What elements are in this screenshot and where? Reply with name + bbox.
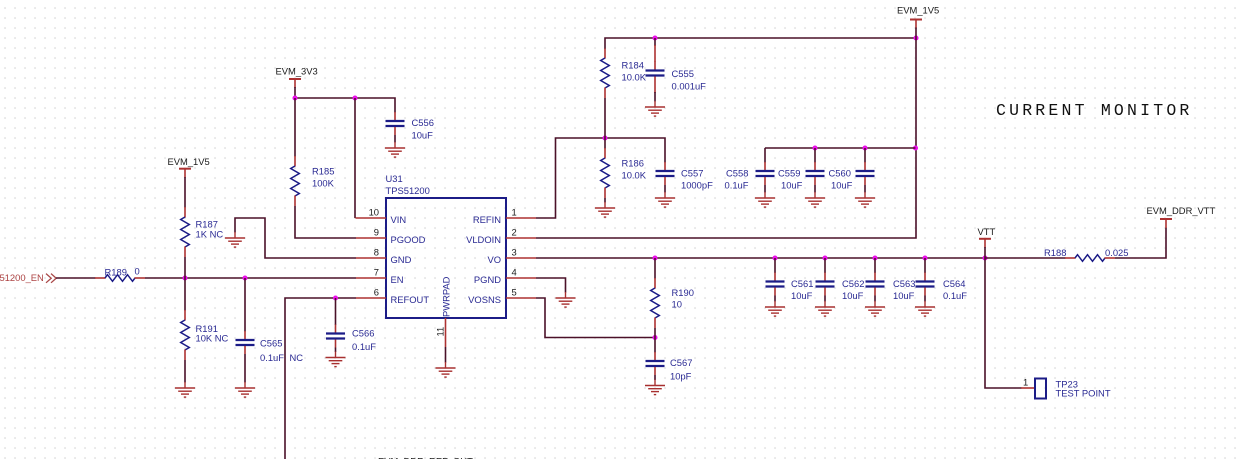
svg-text:C565: C565 — [260, 338, 282, 349]
svg-text:PGND: PGND — [474, 274, 501, 285]
wire pin 11 to ground — [445, 347, 447, 363]
wire PGND pin 4 — [536, 278, 566, 293]
resistor R185 — [291, 156, 335, 206]
svg-text:EVM_DDR_REF_OUT: EVM_DDR_REF_OUT — [378, 455, 473, 459]
svg-text:EVM_DDR_VTT: EVM_DDR_VTT — [1147, 205, 1216, 216]
svg-text:C560: C560 — [829, 167, 851, 178]
ground (R191) — [175, 382, 195, 397]
wire EVM_3V3 node to C556 — [295, 87, 395, 113]
test point TP23 — [1021, 376, 1111, 398]
ground (C567) — [645, 380, 665, 395]
capacitor C564 — [916, 273, 968, 301]
junction C559 row — [812, 145, 817, 150]
pin 10 stub — [356, 217, 387, 219]
wire VTT to TP23 — [985, 258, 1022, 388]
svg-text:10uF: 10uF — [842, 290, 864, 301]
svg-text:C563: C563 — [893, 278, 915, 289]
wire C561 drop — [774, 258, 776, 273]
svg-text:10pF: 10pF — [670, 370, 692, 381]
power EVM_3V3 — [276, 66, 318, 89]
svg-text:4: 4 — [512, 267, 517, 278]
svg-text:C567: C567 — [670, 357, 692, 368]
svg-text:11: 11 — [435, 327, 446, 337]
svg-text:C555: C555 — [672, 68, 694, 79]
pin 7 stub — [356, 277, 386, 279]
capacitor C560 — [829, 162, 875, 190]
wire C559 drop — [814, 148, 816, 163]
resistor R184 — [601, 48, 647, 98]
pin 2 stub — [506, 237, 536, 239]
svg-text:NC: NC — [290, 352, 304, 363]
svg-text:9: 9 — [374, 227, 379, 238]
wire VO to R188 — [985, 257, 1066, 259]
svg-text:VTT: VTT — [978, 226, 996, 237]
wire C558 to ground — [764, 185, 766, 193]
svg-text:10uF: 10uF — [781, 179, 803, 190]
ground (C558) — [755, 192, 775, 207]
svg-text:10: 10 — [672, 299, 682, 310]
svg-text:R189: R189 — [105, 267, 127, 278]
wire C564 drop — [924, 258, 926, 273]
junction cap row / vertical — [913, 145, 918, 150]
wire cap row 1 — [765, 147, 916, 149]
svg-text:VO: VO — [487, 254, 501, 265]
capacitor C557 — [656, 162, 714, 190]
pin 1 stub — [506, 217, 536, 219]
wire EN to C565 — [244, 278, 246, 332]
wire VO to R190 — [654, 258, 656, 279]
wire R184 bottom — [604, 98, 606, 138]
pin 11 PWRPAD stub — [445, 318, 447, 347]
svg-text:3: 3 — [512, 247, 517, 258]
wire top bus EVM_1V5 — [605, 38, 916, 49]
wire R185 to PGOOD pin 9 — [295, 206, 356, 238]
svg-text:C557: C557 — [681, 167, 703, 178]
svg-text:1: 1 — [512, 207, 517, 218]
ground (C561) — [765, 301, 785, 316]
svg-text:R190: R190 — [672, 287, 694, 298]
svg-text:R185: R185 — [312, 165, 334, 176]
svg-text:C558: C558 — [726, 167, 748, 178]
pin 5 stub — [506, 297, 536, 299]
ground (C566) — [326, 352, 346, 367]
pin 3 stub — [506, 257, 536, 259]
wire C561 to ground — [774, 296, 776, 302]
svg-text:PWRPAD: PWRPAD — [441, 276, 452, 317]
svg-text:GND: GND — [391, 254, 412, 265]
wire R190 to junction — [654, 328, 656, 353]
ground (R186) — [595, 202, 615, 217]
svg-text:VOSNS: VOSNS — [468, 294, 501, 305]
junction EN / R187 / R191 — [182, 275, 187, 280]
wire C565 to ground — [244, 354, 246, 383]
capacitor C555 — [646, 62, 707, 92]
wire EN to R191 — [184, 278, 186, 311]
svg-text:0.1uF: 0.1uF — [260, 352, 284, 363]
svg-text:EVM_3V3: EVM_3V3 — [276, 66, 318, 77]
svg-text:1K NC: 1K NC — [196, 229, 224, 240]
wire R186 top — [604, 138, 606, 149]
svg-text:0.1uF: 0.1uF — [943, 290, 967, 301]
wire C566 to ground — [335, 348, 337, 353]
wire R188 to EVM_DDR_VTT — [1115, 228, 1166, 259]
pin 4 stub — [506, 277, 536, 279]
svg-text:10uF: 10uF — [831, 179, 853, 190]
wire R186 to ground — [604, 198, 606, 203]
op-amp U31 TPS51200 body — [386, 173, 507, 318]
svg-text:0.1uF: 0.1uF — [352, 341, 376, 352]
capacitor C558 — [725, 162, 775, 190]
junction EN / C565 — [242, 275, 247, 280]
svg-text:10uF: 10uF — [893, 290, 915, 301]
svg-text:U31: U31 — [386, 173, 403, 184]
svg-text:VLDOIN: VLDOIN — [466, 234, 501, 245]
capacitor C563 — [866, 273, 916, 301]
svg-text:7: 7 — [374, 267, 379, 278]
wire C558 drop — [764, 148, 766, 163]
svg-text:5: 5 — [512, 287, 517, 298]
svg-text:C566: C566 — [352, 328, 374, 339]
svg-text:6: 6 — [374, 287, 379, 298]
wire C564 to ground — [924, 296, 926, 302]
svg-text:51200_EN: 51200_EN — [0, 272, 44, 283]
wire VOSNS pin 5 — [536, 298, 655, 338]
junction VO / VTT — [982, 255, 987, 260]
pin 9 stub — [356, 237, 386, 239]
svg-text:C559: C559 — [778, 167, 800, 178]
resistor R186 — [601, 148, 647, 198]
ground (C563) — [865, 301, 885, 316]
wire REFIN pin 1 — [536, 138, 665, 218]
wire C557 to ground — [664, 185, 666, 193]
wire GND pin 8 route — [235, 218, 356, 258]
wire to VIN pin 10 — [354, 98, 356, 218]
svg-text:0.025: 0.025 — [1105, 247, 1128, 258]
svg-text:10.0K: 10.0K — [622, 170, 647, 181]
svg-text:C561: C561 — [791, 278, 813, 289]
capacitor C565 — [236, 331, 304, 363]
wire REFOUT to C566 — [335, 298, 337, 325]
junction top bus / C555 — [652, 35, 657, 40]
wire C560 drop — [864, 148, 866, 163]
svg-text:0.001uF: 0.001uF — [672, 81, 707, 92]
svg-text:0: 0 — [135, 266, 140, 277]
svg-text:VIN: VIN — [391, 214, 407, 225]
svg-text:CURRENT MONITOR: CURRENT MONITOR — [996, 101, 1193, 120]
wire VO pin 3 rail — [536, 257, 985, 259]
capacitor C567 — [646, 352, 693, 381]
ground (C555) — [645, 101, 665, 116]
ground (PGND) — [556, 292, 576, 307]
wire C562 drop — [824, 258, 826, 273]
resistor R191 — [181, 310, 229, 360]
junction EVM_1V5 / top bus — [913, 35, 918, 40]
junction REFIN / R184 / R186 — [602, 135, 607, 140]
power EVM_1V5 (right) — [897, 4, 939, 28]
svg-text:1: 1 — [1023, 376, 1028, 387]
port 51200_EN — [0, 272, 56, 283]
wire REFOUT pin 6 — [285, 298, 356, 459]
wire C555 top — [654, 38, 656, 46]
ground (C557) — [655, 192, 675, 207]
svg-text:R184: R184 — [622, 60, 644, 71]
wire C562 to ground — [824, 296, 826, 302]
ground (C565) — [235, 382, 255, 397]
svg-text:10uF: 10uF — [791, 290, 813, 301]
wire C567 to ground — [654, 375, 656, 380]
junction EVM_3V3 / VIN — [352, 95, 357, 100]
wire C563 drop — [874, 258, 876, 273]
svg-text:100K: 100K — [312, 177, 335, 188]
svg-text:EVM_1V5: EVM_1V5 — [897, 4, 939, 15]
svg-text:R188: R188 — [1044, 247, 1066, 258]
ground (C560) — [855, 192, 875, 207]
ground (C559) — [805, 192, 825, 207]
wire C563 to ground — [874, 296, 876, 302]
power VTT — [978, 226, 996, 248]
power EVM_1V5 (left) — [168, 156, 210, 178]
svg-text:C564: C564 — [943, 278, 965, 289]
svg-text:TEST POINT: TEST POINT — [1056, 388, 1111, 399]
capacitor C556 — [386, 112, 434, 141]
ground (PWRPAD) — [436, 362, 456, 377]
svg-text:C562: C562 — [842, 278, 864, 289]
svg-text:0.1uF: 0.1uF — [725, 179, 749, 190]
svg-text:R186: R186 — [622, 158, 644, 169]
svg-text:2: 2 — [512, 227, 517, 238]
svg-text:10uF: 10uF — [412, 130, 434, 141]
svg-text:10: 10 — [369, 207, 379, 218]
capacitor C562 — [816, 273, 865, 301]
junction VO / C562 — [822, 255, 827, 260]
svg-text:REFOUT: REFOUT — [391, 294, 430, 305]
wire C555 to ground — [654, 85, 656, 94]
junction VO / C564 — [922, 255, 927, 260]
wire R187 to EN — [184, 257, 186, 278]
wire C556 to ground — [394, 135, 396, 143]
pin 8 stub — [356, 257, 386, 259]
power EVM_DDR_VTT — [1147, 205, 1216, 228]
svg-text:EVM_1V5: EVM_1V5 — [168, 156, 210, 167]
capacitor C559 — [778, 162, 825, 190]
svg-text:1000pF: 1000pF — [681, 179, 713, 190]
junction VO / R190 — [652, 255, 657, 260]
svg-text:TPS51200: TPS51200 — [386, 185, 430, 196]
ground (pin 8 GND) — [225, 232, 245, 247]
wire EVM_1V5 vertical to VLDOIN — [536, 28, 916, 239]
wire C559 to ground — [814, 185, 816, 193]
wire R191 to ground — [184, 360, 186, 383]
svg-text:PGOOD: PGOOD — [391, 234, 426, 245]
wire port to R189 — [56, 277, 96, 279]
svg-text:10K NC: 10K NC — [196, 333, 229, 344]
wire C560 to ground — [864, 185, 866, 193]
wire EVM_3V3 to R185 — [294, 98, 296, 157]
junction VO / C563 — [872, 255, 877, 260]
junction EVM_3V3 / R185 — [292, 95, 297, 100]
ground (C556) — [385, 142, 405, 157]
svg-text:10.0K: 10.0K — [622, 72, 647, 83]
junction C560 row — [862, 145, 867, 150]
wire VTT stub — [984, 247, 986, 258]
junction REFOUT / C566 — [333, 295, 338, 300]
svg-text:8: 8 — [374, 247, 379, 258]
wire R189 to pin7 EN — [145, 277, 356, 279]
capacitor C566 — [326, 325, 376, 352]
junction VO / C561 — [772, 255, 777, 260]
resistor R190 — [651, 278, 694, 328]
ground (C562) — [815, 301, 835, 316]
resistor R189 — [95, 266, 145, 282]
svg-text:REFIN: REFIN — [473, 214, 501, 225]
wire EVM_1V5 to R187 — [184, 177, 186, 208]
capacitor C561 — [766, 273, 814, 301]
resistor R188 — [1044, 247, 1128, 261]
pin 6 stub — [356, 297, 386, 299]
junction VOSNS / R190 / C567 — [652, 335, 657, 340]
ground (C564) — [915, 301, 935, 316]
resistor R187 — [181, 207, 224, 257]
svg-text:EN: EN — [391, 274, 404, 285]
svg-text:C556: C556 — [412, 117, 434, 128]
